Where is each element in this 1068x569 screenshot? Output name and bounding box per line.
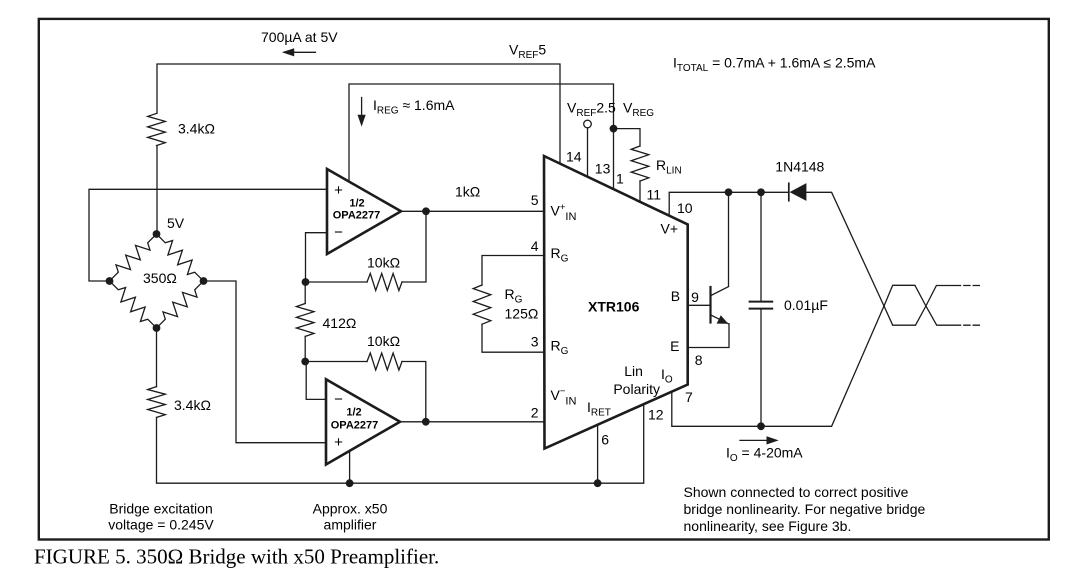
svg-text:VREG: VREG [623,100,654,120]
svg-text:1/2: 1/2 [346,407,361,419]
wire C1 bottom lead [760,309,762,427]
node U1 feedback [302,278,310,286]
transistor Q1 collector diagonal [711,287,729,296]
node bridge bottom [153,324,161,332]
op-amp U2 1/2 OPA2277 lower [326,379,400,464]
svg-text:RG: RG [551,338,569,358]
node bridge left [106,277,114,285]
svg-text:14: 14 [566,148,582,164]
node VREG RLIN tap [610,125,618,133]
svg-text:B: B [671,288,680,304]
node C1 bottom on IO wire [757,422,765,430]
resistor R5 412 [296,304,314,337]
resistor bridge bottom-left [110,281,157,328]
svg-text:3.4kΩ: 3.4kΩ [178,121,215,137]
wire 10k R4 to U2 output [402,362,426,422]
arrow 700uA left [287,51,316,53]
resistor RLIN [631,146,649,181]
svg-text:E: E [670,338,679,354]
wire bridge right to opamp U2 + input [204,281,327,443]
arrow IREG down [361,98,363,120]
svg-text:ITOTAL = 0.7mA + 1.6mA ≤ 2.5mA: ITOTAL = 0.7mA + 1.6mA ≤ 2.5mA [673,55,876,75]
svg-text:5: 5 [531,192,539,208]
node bridge right [200,277,208,285]
wire bridge bottom to 3.4k bottom [156,328,158,387]
transistor Q1 emitter return to pin8 [688,324,729,348]
svg-text:−: − [334,224,343,241]
svg-text:1N4148: 1N4148 [775,159,824,175]
resistor R3 10k upper [367,274,402,291]
wire U1 - input to feedback node [306,233,328,282]
node C1 top on V+ rail [757,188,765,196]
svg-text:10: 10 [677,200,693,216]
wire U1 output to pin5 [401,210,545,212]
wire RG to pin3 [482,324,545,352]
node U2 output [422,418,430,426]
svg-text:V+IN: V+IN [551,202,577,223]
svg-text:Polarity: Polarity [613,381,660,397]
svg-text:3: 3 [531,334,539,350]
op-amp U1 1/2 OPA2277 upper [327,169,401,254]
resistor R4 10k lower [367,353,402,370]
svg-text:8: 8 [695,352,703,368]
svg-text:+: + [334,434,343,451]
wire bridge left to opamp U1 + input [89,189,327,281]
resistor bridge top-right [157,234,204,281]
svg-text:10kΩ: 10kΩ [367,254,400,270]
wire pin10 V+ rail to diode [669,192,788,215]
svg-text:+: + [334,182,343,199]
svg-text:350Ω: 350Ω [143,270,177,286]
wire Q1 collector [728,192,730,286]
wire 3.4k top to 5V bridge node [156,146,158,234]
wire VREG rail to opamp supply [349,84,614,189]
capacitor C1 0.01uF plates [750,301,773,303]
wire feedback node to 10k R3 [306,281,368,283]
node U1 output [422,207,430,215]
svg-text:6: 6 [601,432,609,448]
svg-text:2: 2 [531,405,539,421]
svg-text:3.4kΩ: 3.4kΩ [174,397,211,413]
resistor R2 3.4k bottom [148,387,166,418]
node collector on V+ rail [725,188,733,196]
op-amp XTR106 body U3 [544,156,688,449]
svg-text:voltage = 0.245V: voltage = 0.245V [108,516,214,532]
resistor R1 3.4k top [148,113,166,145]
wire 412R top lead [304,282,306,304]
wire VREF2.5 stub to pin13 [587,128,589,177]
svg-text:7: 7 [685,389,693,405]
svg-text:5V: 5V [167,215,185,231]
diode D1 1N4148 arrow body [790,183,807,201]
wire RLIN branch [614,129,641,146]
svg-text:VREF2.5: VREF2.5 [567,100,616,120]
transistor Q1 base bar [709,287,711,323]
wire VREF5 top rail [157,64,560,164]
diode D1 1N4148 cathode bar [788,183,790,200]
svg-text:amplifier: amplifier [324,516,377,532]
svg-text:9: 9 [691,289,699,305]
svg-text:VREF5: VREF5 [509,42,546,62]
svg-text:bridge nonlinearity. For negat: bridge nonlinearity. For negative bridge [684,501,926,517]
svg-text:OPA2277: OPA2277 [331,420,379,432]
svg-text:RG: RG [505,286,523,306]
svg-text:Lin: Lin [624,363,643,379]
svg-text:1kΩ: 1kΩ [455,184,480,200]
svg-text:10kΩ: 10kΩ [367,333,400,349]
svg-text:IO = 4-20mA: IO = 4-20mA [726,445,803,465]
svg-text:12: 12 [648,406,664,422]
node U2 feedback [301,358,309,366]
resistor bridge bottom-right [157,281,204,328]
node pin6 on return rail [594,479,602,487]
wire twisted pair loop upper [884,285,954,325]
wire 10k R3 to U1 output [402,211,426,282]
wire twisted pair loop lower [884,286,954,326]
svg-text:4: 4 [531,238,539,254]
transistor Q1 emitter diagonal [711,315,730,324]
svg-text:RG: RG [551,245,569,265]
svg-text:−: − [334,391,343,408]
svg-text:IRET: IRET [587,399,611,419]
wire node to 10k R4 [305,361,367,363]
svg-text:1: 1 [616,171,624,187]
wire RLIN to pin11 [639,181,641,202]
svg-text:125Ω: 125Ω [505,306,539,322]
wire opamp V- drop [349,450,351,483]
wire dashed tail upper [954,285,982,287]
svg-text:Shown connected to correct pos: Shown connected to correct positive [684,484,909,500]
svg-text:13: 13 [595,161,611,177]
resistor bridge top-left [110,234,157,281]
svg-text:IREG ≈ 1.6mA: IREG ≈ 1.6mA [373,97,455,117]
svg-text:IO: IO [661,366,673,386]
svg-text:11: 11 [647,186,662,202]
wire diode to twisted pair [806,192,884,306]
wire bottom return rail [157,404,644,483]
svg-text:412Ω: 412Ω [323,315,357,331]
node VREF2.5 open terminal [584,120,592,128]
svg-text:V+: V+ [661,220,679,236]
svg-text:700µA at 5V: 700µA at 5V [261,29,338,45]
node opamp V- on return rail [346,479,354,487]
resistor RG 125 [473,285,491,324]
transistor Q1 emitter arrowhead [717,315,729,324]
svg-text:0.01µF: 0.01µF [784,297,828,313]
wire U2 - input to node [306,362,326,400]
svg-text:Approx. x50: Approx. x50 [313,501,388,517]
wire pin6 IRET drop [597,425,599,483]
svg-text:nonlinearity, see Figure 3b.: nonlinearity, see Figure 3b. [684,518,852,534]
svg-text:V−IN: V−IN [551,386,577,407]
wire C1 top lead [760,192,762,301]
svg-text:XTR106: XTR106 [588,299,640,315]
wire U2 output to pin2 [400,421,545,423]
transistor Q1 base wire pin9 [688,304,711,306]
svg-text:RLIN: RLIN [656,157,682,177]
svg-text:1/2: 1/2 [349,198,364,210]
arrow IO right [740,439,770,441]
wire 412R bottom lead [304,336,306,361]
wire pin7 IO out [672,306,884,426]
svg-text:Bridge excitation: Bridge excitation [109,501,213,517]
svg-text:FIGURE 5. 350Ω Bridge with x50: FIGURE 5. 350Ω Bridge with x50 Preamplif… [34,545,439,569]
svg-text:OPA2277: OPA2277 [333,210,381,222]
wire pin4 to RG [482,256,545,286]
node 5V bridge top [153,230,161,238]
wire dashed tail lower [954,324,982,326]
